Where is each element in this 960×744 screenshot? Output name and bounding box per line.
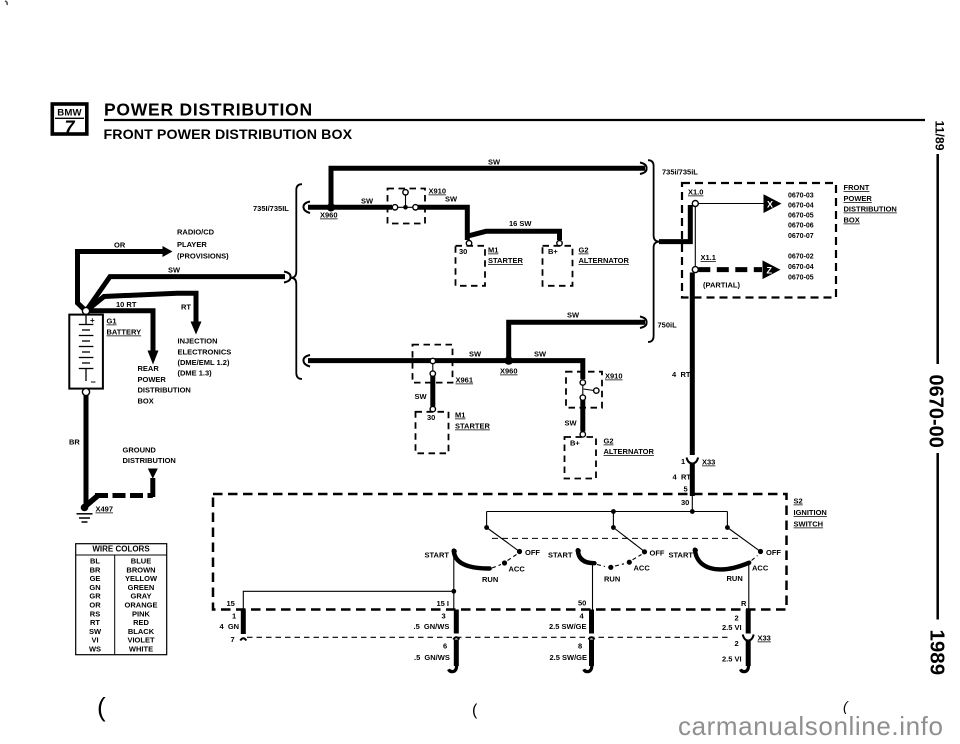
svg-text:VI: VI [91,636,98,645]
alternator G2 (top) dashed box [543,246,573,286]
svg-text:POWER DISTRIBUTION: POWER DISTRIBUTION [104,100,313,120]
wire: brace to X1.0 riser [659,205,690,242]
svg-text:B+: B+ [570,439,580,448]
svg-text:OFF: OFF [650,549,665,558]
connector X961 dashed box [413,345,453,383]
svg-text:X33: X33 [702,458,715,467]
svg-text:STARTER: STARTER [488,256,523,265]
svg-text:(: ( [472,702,478,719]
svg-text:.5 GN/WS: .5 GN/WS [414,653,450,662]
X33 interface dashed line [247,636,730,638]
connector X33 (main) [687,458,699,464]
svg-text:BATTERY: BATTERY [107,328,142,337]
diagonal to OFF 3 [727,528,759,551]
svg-text:6: 6 [443,642,447,651]
svg-text:RUN: RUN [727,574,743,583]
svg-text:G2: G2 [604,437,614,446]
pin circle M1-30 (middle) [430,406,435,411]
svg-text:FRONT POWER DISTRIBUTION BOX: FRONT POWER DISTRIBUTION BOX [104,127,353,143]
svg-text:X960: X960 [320,211,338,220]
svg-text:11/89: 11/89 [933,121,947,151]
svg-text:G1: G1 [107,317,117,326]
wire-end curl (battery SW) [284,272,291,283]
switch 2 wiper arc [578,550,595,563]
svg-text:GR: GR [89,592,101,601]
wire-start curl left (750 feed) [303,355,310,367]
wire: battery SW feed to brace [86,277,285,311]
svg-text:50: 50 [578,599,586,608]
svg-text:2.5 SW/GE: 2.5 SW/GE [550,653,588,662]
terminal wire R/2 (2.5 VI) [746,610,751,634]
arrowhead 10RT (rear box) [148,351,159,365]
svg-text:X960: X960 [500,367,518,376]
svg-text:IGNITION: IGNITION [794,508,827,517]
big left brace [291,184,302,379]
svg-text:SW: SW [488,158,501,167]
terminal wire 15I/3 (.5 GN/WS) [454,610,459,634]
wire: X910 down to alternator [580,400,585,432]
svg-text:RUN: RUN [604,575,620,584]
svg-text:X: X [767,199,773,209]
svg-text:735i/735iL: 735i/735iL [662,168,698,177]
svg-text:3: 3 [442,612,446,621]
svg-text:8: 8 [578,642,582,651]
svg-text:GROUND: GROUND [123,446,157,455]
stray mark top-left [5,1,7,5]
pin circle X1.1 [692,267,698,273]
svg-text:1: 1 [232,612,236,621]
svg-text:RT: RT [181,303,191,312]
svg-text:0670-07: 0670-07 [788,233,814,240]
hook 15/7 at X33 line [240,638,246,640]
X910 middle internals [580,380,599,401]
svg-text:STARTER: STARTER [455,422,490,431]
wire-end hook (GN/WS) [449,663,457,672]
OFF dot 2 + label [642,549,647,554]
svg-text:G2: G2 [579,246,589,255]
svg-text:SW: SW [567,311,580,320]
wire: BR battery to ground [84,395,89,505]
svg-text:16 SW: 16 SW [509,219,532,228]
starter M1 (middle) dashed box [416,412,449,454]
svg-text:SW: SW [361,197,374,206]
connector X910 (top) dashed box [388,189,426,224]
svg-text:.5 GN/WS: .5 GN/WS [414,622,450,631]
svg-text:4 GN: 4 GN [220,622,240,631]
svg-text:BL: BL [90,557,100,566]
battery G1 box [69,315,103,389]
svg-text:SW: SW [565,419,578,428]
arrowhead radio [163,246,173,257]
X961 internals [430,358,435,376]
svg-text:REAR: REAR [138,364,160,373]
svg-text:2.5 VI: 2.5 VI [722,623,742,632]
wire: X961 down to starter [430,376,435,407]
svg-text:RED: RED [133,618,149,627]
arrowhead RT (injection) [191,322,202,335]
terminal 15 branch line [243,591,453,609]
svg-text:OFF: OFF [766,548,781,557]
svg-text:DISTRIBUTION: DISTRIBUTION [138,386,191,395]
svg-text:0670-00: 0670-00 [925,375,947,448]
svg-text:GREEN: GREEN [128,583,155,592]
svg-text:SW: SW [445,195,458,204]
svg-text:30: 30 [427,413,435,422]
svg-text:RT: RT [90,618,100,627]
svg-text:X1.1: X1.1 [701,253,716,262]
wire-end hook (SW/GE) [584,663,592,672]
svg-text:BROWN: BROWN [126,565,155,574]
wire-end curl at right brace (top rail) [640,163,647,175]
terminal wire 15/1 (4 GN) [241,610,246,635]
svg-text:Z: Z [767,265,773,275]
svg-text:B+: B+ [548,247,558,256]
svg-text:ALTERNATOR: ALTERNATOR [604,447,655,456]
svg-text:0670-05: 0670-05 [788,275,814,282]
diagonal to OFF 1 [487,528,519,551]
svg-text:X497: X497 [96,505,114,514]
ACC dash 3 + label [752,556,758,561]
svg-text:START: START [669,551,694,560]
wire: 16 SW branch to alternator [466,231,560,240]
wire: ground distribution dashed branch [85,496,98,507]
svg-text:ACC: ACC [752,564,769,573]
drop line switch1 [486,512,488,528]
OFF dot 1 + label [517,549,522,554]
svg-text:GN: GN [89,583,100,592]
pin circle M1-30 (top) [466,241,471,246]
alternator G2 (middle) dashed box [565,437,597,479]
svg-text:2.5 SW/GE: 2.5 SW/GE [549,622,587,631]
wire: X33 to ignition box [690,464,695,497]
wire: 4 RT down from X1.1 [690,273,695,456]
svg-text:GE: GE [90,574,101,583]
drop line switch3 [726,512,728,528]
svg-text:RT: RT [681,370,691,379]
wire: battery 10 RT branch [86,311,153,351]
svg-text:WS: WS [89,645,101,654]
svg-text:(PROVISIONS): (PROVISIONS) [177,252,229,261]
connector X910 (middle) dashed box [566,372,602,408]
svg-text:(DME/EML 1.2): (DME/EML 1.2) [178,358,230,367]
ignition switch S2 dashed box [213,494,787,610]
svg-text:0670-04: 0670-04 [788,264,814,271]
svg-text:1989: 1989 [926,630,949,676]
svg-text:BLUE: BLUE [131,557,151,566]
svg-text:M1: M1 [455,411,465,420]
wire-end curl at right (750iL rail) [640,317,647,329]
switch 3 terminal line [748,565,750,610]
svg-text:OR: OR [89,601,101,610]
svg-text:RUN: RUN [482,575,498,584]
svg-text:SW: SW [469,350,482,359]
node: battery + terminal [82,307,89,314]
svg-text:BR: BR [90,565,101,574]
svg-text:X910: X910 [605,372,623,381]
svg-text:INJECTION: INJECTION [178,337,218,346]
diagonal to OFF 2 [613,528,643,551]
battery internals [79,315,94,381]
svg-text:(DME 1.3): (DME 1.3) [178,369,213,378]
svg-text:YELLOW: YELLOW [125,574,158,583]
node X960 (top) [327,203,335,211]
wire: battery RT branch [86,293,196,322]
switch 2 terminal line [592,564,594,610]
svg-text:5: 5 [684,485,688,494]
junction dot sw1 line [451,589,456,594]
svg-text:7: 7 [64,118,75,138]
svg-text:POWER: POWER [138,375,167,384]
svg-text:30: 30 [681,498,689,507]
svg-text:OFF: OFF [525,548,540,557]
svg-text:15: 15 [227,599,235,608]
connector X33 (wire R) [743,635,749,641]
svg-text:750iL: 750iL [658,321,678,330]
svg-text:0670-06: 0670-06 [788,223,814,230]
svg-text:(: ( [97,692,106,722]
svg-text:2.5 VI: 2.5 VI [722,655,742,664]
drop line switch2 [612,512,614,528]
BMW 7 logo [52,104,87,138]
ACC dot 2 + label [627,560,632,565]
wire: 750iL rail [308,361,583,380]
table rows [89,557,158,654]
wire: X910 to starter bend [418,207,467,240]
svg-text:10 RT: 10 RT [116,300,137,309]
junction dot rail-feed [690,509,695,514]
arrow Z [763,260,781,279]
svg-text:−: − [91,377,96,387]
pin circle G2-B+ (top) [557,241,562,246]
svg-text:X1.0: X1.0 [688,188,703,197]
svg-text:GRAY: GRAY [131,592,152,601]
ground X497 [77,504,93,522]
svg-text:DISTRIBUTION: DISTRIBUTION [123,456,176,465]
switch feed rail [487,511,728,513]
svg-text:RS: RS [90,609,100,618]
svg-text:30: 30 [459,247,467,256]
svg-text:PINK: PINK [132,609,151,618]
RUN dot 2 + dashes [597,565,605,567]
svg-text:+: + [90,316,95,325]
wire-start curl left (735 feed) [303,202,310,214]
node: battery - terminal [82,388,89,395]
svg-text:SW: SW [534,350,547,359]
OFF dot 3 + label [758,549,763,554]
wire: top 735i/735iL SW rail [331,168,645,205]
svg-text:RT: RT [681,473,691,482]
junction dot rail-sw2 [611,509,616,514]
svg-text:2: 2 [735,614,739,623]
svg-text:BLACK: BLACK [128,627,155,636]
thin feed line into switch rail [691,496,693,512]
svg-text:7: 7 [231,635,235,644]
dashed thick wire X1.1 to Z arrow [698,267,762,272]
svg-text:ELECTRONICS: ELECTRONICS [178,348,232,357]
starter M1 (top) dashed box [456,246,486,286]
arrowhead ground distribution [148,469,158,479]
svg-text:X910: X910 [429,187,447,196]
switch 1 terminal line [453,552,455,610]
wire: X960 riser to 750iL right rail [509,322,645,358]
svg-text:X33: X33 [758,634,771,643]
svg-text:(PARTIAL): (PARTIAL) [703,281,740,290]
svg-text:0670-03: 0670-03 [788,193,814,200]
pin circle X1.0 [692,201,698,207]
header rule [104,119,925,121]
svg-text:X961: X961 [456,376,474,385]
mechanical coupling dashed line [492,537,741,539]
svg-text:BOX: BOX [844,216,860,225]
svg-text:DISTRIBUTION: DISTRIBUTION [844,205,897,214]
svg-text:SW: SW [168,266,181,275]
arrow X [764,194,782,213]
wire colors legend table [76,544,167,655]
node X960 (middle) [505,356,513,364]
svg-text:BR: BR [69,438,80,447]
svg-text:OR: OR [114,241,126,250]
thin line X1.0 to X1.1 [694,207,696,267]
terminal wire 50/4 (2.5 SW/GE) [589,610,594,634]
svg-text:START: START [425,551,450,560]
margin rule lower [936,453,939,620]
switch 1 wiper arc [454,551,490,569]
svg-text:SW: SW [415,392,428,401]
svg-text:ACC: ACC [509,565,526,574]
svg-text:BOX: BOX [138,397,154,406]
svg-text:PLAYER: PLAYER [177,240,207,249]
thin line X1.0 to X arrow [698,203,764,205]
svg-text:VIOLET: VIOLET [127,636,155,645]
svg-text:SWITCH: SWITCH [794,520,824,529]
big right brace [648,160,660,342]
svg-text:735I/735IL: 735I/735IL [253,204,289,213]
wire-end hook (VI) [740,663,748,672]
svg-text:POWER: POWER [844,194,873,203]
switch 3 wiper arc [695,550,749,570]
svg-text:RADIO/CD: RADIO/CD [177,228,215,237]
svg-text:SW: SW [89,627,102,636]
svg-text:0670-05: 0670-05 [788,213,814,220]
ACC dot 1 + dashes [492,565,501,569]
wire: battery to radio (OR) [78,252,164,312]
svg-text:FRONT: FRONT [844,183,870,192]
svg-text:0670-02: 0670-02 [788,254,814,261]
svg-text:15 I: 15 I [437,599,450,608]
margin rule upper [936,154,939,364]
svg-text:WHITE: WHITE [129,645,153,654]
svg-text:0670-04: 0670-04 [788,203,814,210]
pin circle G2-B+ (middle) [580,432,585,437]
svg-text:R: R [741,599,747,608]
svg-text:2: 2 [735,639,739,648]
svg-text:ALTERNATOR: ALTERNATOR [579,256,630,265]
svg-text:1: 1 [681,457,685,466]
svg-text:WIRE COLORS: WIRE COLORS [92,545,150,554]
svg-text:ACC: ACC [634,564,651,573]
svg-text:S2: S2 [794,497,803,506]
wire: X960 to X910 [308,205,392,210]
front box X1.0/X1.1 dashed box [682,183,836,298]
svg-text:START: START [548,551,573,560]
svg-text:carmanualsonline.info: carmanualsonline.info [678,711,944,741]
svg-text:ORANGE: ORANGE [125,601,158,610]
svg-text:M1: M1 [488,246,498,255]
X910 top internals [392,190,418,210]
